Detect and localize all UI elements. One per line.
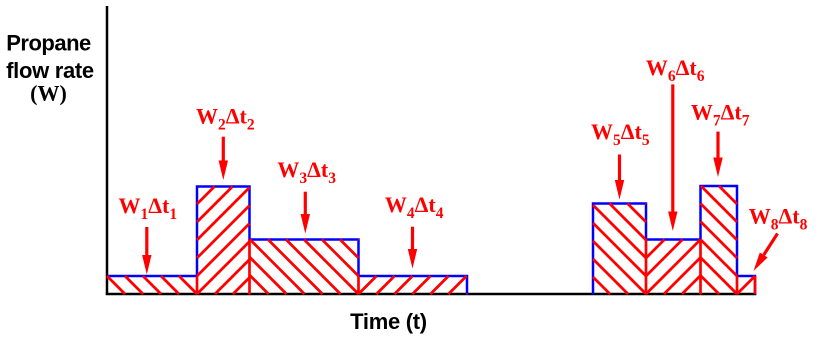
- arrow 2: [219, 137, 228, 180]
- svg-text:W6Δt6: W6Δt6: [646, 55, 705, 85]
- x axis: [106, 293, 757, 296]
- red interval divider at x=755: [754, 276, 757, 294]
- label W7At7: [691, 100, 750, 130]
- svg-text:W7Δt7: W7Δt7: [691, 100, 750, 130]
- svg-text:W8Δt8: W8Δt8: [749, 203, 808, 233]
- region 3 hatch (W3 interval): [250, 240, 359, 295]
- svg-text:W4Δt4: W4Δt4: [385, 192, 444, 222]
- red interval divider at x=646: [645, 240, 648, 295]
- arrow 3: [301, 192, 310, 234]
- svg-text:Propane: Propane: [6, 30, 91, 55]
- y axis label: Propane flow rate (W): [6, 30, 94, 105]
- region 2 hatch (W2 interval): [197, 187, 250, 295]
- region 5 hatch (W5 interval): [593, 204, 646, 295]
- svg-text:W3Δt3: W3Δt3: [277, 157, 336, 187]
- svg-text:(W): (W): [30, 81, 67, 106]
- label W6At6: [646, 55, 705, 85]
- y axis: [106, 6, 109, 295]
- svg-text:Time (t): Time (t): [350, 309, 427, 334]
- red interval divider at x=737: [736, 276, 739, 294]
- region 4 hatch (W4 interval): [359, 276, 468, 294]
- label W3At3: [277, 157, 336, 187]
- arrow 1: [142, 227, 151, 275]
- region 7 hatch (W7 interval): [701, 186, 738, 294]
- red interval divider at x=358.5: [357, 276, 360, 294]
- arrow 4: [408, 227, 417, 269]
- label W4At4: [385, 192, 444, 222]
- svg-text:W5Δt5: W5Δt5: [591, 119, 650, 149]
- arrow 6: [668, 84, 677, 231]
- region 1 hatch (W1 interval): [107, 276, 197, 294]
- blue step outline group 2 (intervals 5-8): [593, 186, 755, 295]
- blue step outline group 1 (intervals 1-4): [107, 187, 467, 295]
- arrow 8 (diagonal): [754, 234, 778, 272]
- red interval divider at x=700.5: [699, 240, 702, 295]
- region 8 hatch (W8 interval): [737, 276, 755, 294]
- region 6 hatch (W6 interval): [646, 240, 701, 295]
- red interval divider at x=249.5: [248, 240, 251, 295]
- x axis label: Time (t): [350, 309, 427, 334]
- red interval divider at x=197: [196, 276, 199, 294]
- svg-text:flow rate: flow rate: [6, 58, 94, 83]
- label W5At5: [591, 119, 650, 149]
- arrow 5: [615, 155, 624, 200]
- svg-text:W1Δt1: W1Δt1: [118, 193, 177, 223]
- label W8At8: [749, 203, 808, 233]
- label W1At1: [118, 193, 177, 223]
- svg-text:W2Δt2: W2Δt2: [196, 103, 255, 133]
- arrow 7: [713, 132, 722, 177]
- label W2At2: [196, 103, 255, 133]
